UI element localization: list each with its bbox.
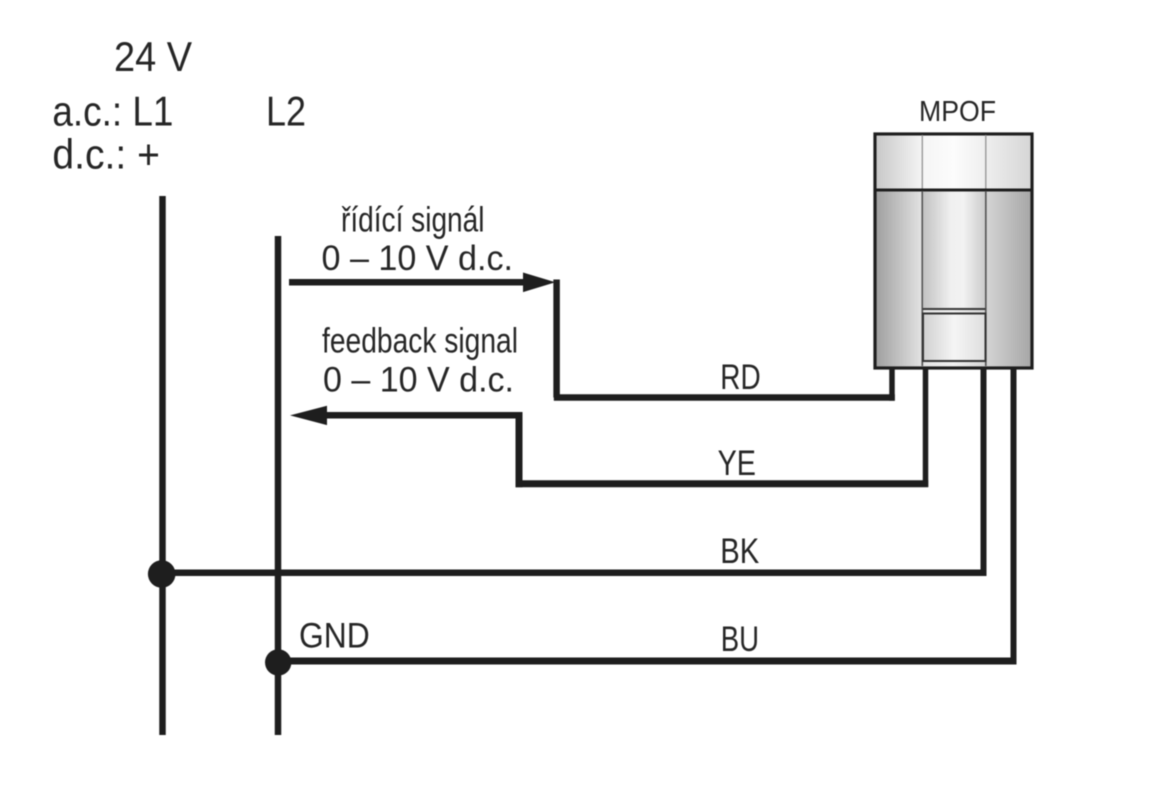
actuator centre column [923, 192, 985, 309]
svg-text:0 – 10 V d.c.: 0 – 10 V d.c. [322, 239, 514, 278]
actuator small panel [923, 314, 986, 362]
svg-text:a.c.: L1: a.c.: L1 [52, 88, 173, 135]
svg-text:YE: YE [718, 444, 756, 483]
wire L2 vertical [275, 236, 282, 735]
wire BK leg [981, 364, 987, 576]
actuator MPOF body [875, 134, 1032, 368]
wire BU horizontal [278, 658, 1017, 665]
svg-text:L2: L2 [266, 88, 306, 135]
wire YE horizontal [516, 480, 929, 487]
svg-text:BK: BK [720, 532, 759, 571]
wire RD leg [889, 364, 895, 401]
svg-text:řídící signál: řídící signál [341, 201, 485, 240]
wire BK horizontal [162, 570, 986, 577]
wire feedback arrow shaft [322, 412, 523, 419]
wire YE leg [923, 364, 929, 487]
wire control-signal arrow shaft [289, 279, 527, 286]
svg-text:GND: GND [299, 617, 370, 656]
svg-text:RD: RD [720, 358, 760, 397]
svg-text:feedback signal: feedback signal [322, 322, 518, 361]
svg-text:MPOF: MPOF [919, 96, 996, 128]
junction dot L1/BK [148, 560, 176, 588]
svg-text:0 – 10 V d.c.: 0 – 10 V d.c. [323, 360, 514, 399]
svg-text:24 V: 24 V [114, 33, 192, 80]
wire RD drop vertical [553, 280, 560, 398]
wire L1 vertical [159, 196, 166, 735]
junction dot L2/BU [265, 649, 291, 675]
wire BU leg [1011, 364, 1017, 665]
wire RD horizontal [554, 394, 895, 401]
svg-text:d.c.: +: d.c.: + [52, 131, 159, 178]
svg-text:BU: BU [721, 620, 759, 659]
arrowhead feedback signal [290, 406, 327, 425]
arrowhead control signal [523, 273, 555, 293]
wire feedback vertical [516, 412, 523, 487]
